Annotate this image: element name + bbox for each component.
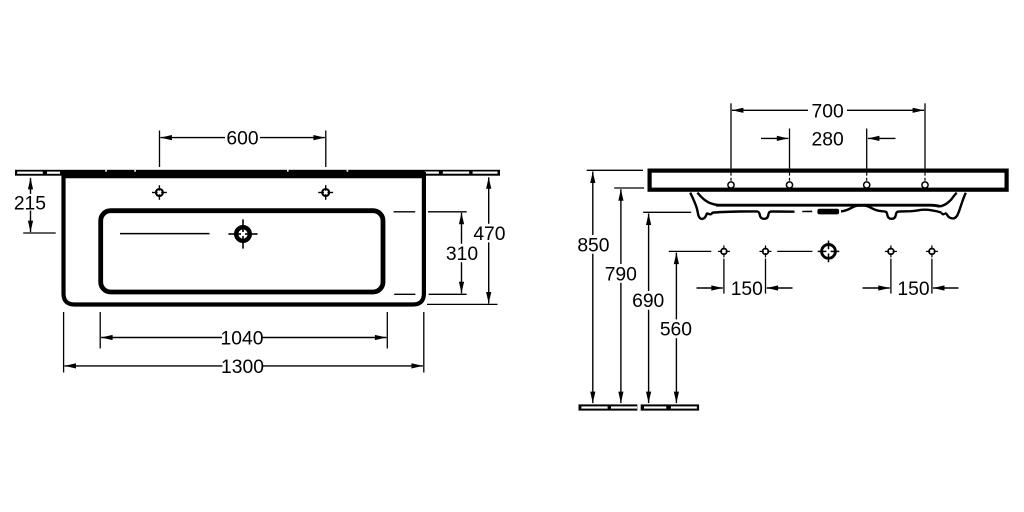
bowl centerline [120, 233, 210, 235]
floor line [579, 404, 700, 410]
svg-text:280: 280 [812, 129, 844, 150]
inner bowl outline [101, 211, 383, 292]
contour dash [802, 210, 812, 212]
dimension 280 [761, 129, 896, 169]
dimension 470 [427, 177, 505, 304]
svg-text:150: 150 [731, 279, 763, 300]
dimension 1300 [64, 312, 424, 378]
slab hole 4 [922, 173, 928, 188]
dimension 560 [660, 251, 813, 403]
svg-text:700: 700 [812, 101, 844, 122]
dimension 150 left [697, 259, 793, 300]
svg-text:690: 690 [632, 291, 664, 312]
svg-text:790: 790 [605, 264, 637, 285]
right inner curve [940, 193, 957, 207]
dimension 700 [731, 101, 925, 168]
svg-text:1040: 1040 [221, 329, 264, 350]
svg-text:560: 560 [660, 320, 692, 341]
ledge white slots right overhang [425, 172, 498, 174]
svg-text:600: 600 [226, 129, 258, 150]
svg-text:150: 150 [897, 279, 929, 300]
drain hole (large centre) [818, 241, 840, 263]
ledge top notches [105, 170, 348, 172]
dimension 215 [14, 178, 56, 233]
mounting ledge band (rear edge plate) [15, 170, 500, 176]
basin underside right leg notch [941, 213, 945, 215]
slab hole 2 [786, 173, 792, 188]
contour right of drain with overflow bump [841, 206, 899, 219]
svg-text:215: 215 [14, 193, 46, 214]
basin outer outline [64, 172, 424, 305]
wall hole 2 [760, 245, 772, 257]
wall hole 4 [926, 245, 938, 257]
bowl underside line [716, 205, 940, 206]
slab hole 1 [728, 173, 734, 188]
faucet hole (centre) [228, 219, 257, 248]
dimension 850 [577, 170, 643, 403]
underside contour with left foot [708, 211, 795, 218]
svg-text:1300: 1300 [221, 357, 264, 378]
dimension 790 [605, 188, 644, 403]
slab hole 3 [864, 173, 870, 188]
wall hole row: small hole 1 [718, 245, 730, 257]
basin underside right apron [945, 193, 966, 219]
left tap hole [152, 185, 167, 200]
dimension 150 right [863, 259, 959, 300]
drain fitting block [817, 209, 839, 215]
dimension 600 [160, 129, 326, 168]
dimension 310 [394, 212, 478, 294]
dimension 690 [632, 212, 691, 403]
basin underside left apron [690, 193, 708, 219]
right tap hole [318, 185, 333, 200]
console slab outline [650, 171, 1007, 190]
svg-text:470: 470 [473, 224, 505, 245]
wall hole 3 [885, 245, 897, 257]
svg-text:310: 310 [446, 244, 478, 265]
basin underside left inner curve [697, 193, 717, 205]
ledge white slots left overhang [17, 172, 60, 174]
contour right segment [899, 210, 941, 213]
dimension 1040 [100, 312, 387, 350]
svg-text:850: 850 [577, 235, 609, 256]
